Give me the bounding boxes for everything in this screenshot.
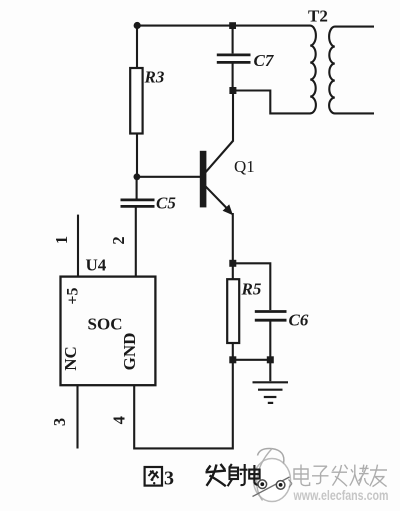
node C6 bottom junction	[267, 356, 274, 363]
label C5 value	[156, 194, 176, 213]
ic U4 SOC box	[61, 277, 156, 386]
wire collector to primary bottom	[233, 91, 311, 114]
svg-text:3: 3	[50, 418, 69, 426]
svg-text:C5: C5	[156, 194, 176, 213]
label pin 4	[110, 416, 129, 424]
svg-text:U4: U4	[86, 256, 107, 275]
node collector junction	[229, 87, 236, 94]
svg-text:www.elecfans.com: www.elecfans.com	[293, 488, 389, 503]
svg-text:1: 1	[52, 236, 71, 244]
label GND	[120, 333, 139, 371]
caption character fa	[206, 464, 227, 486]
label C7 value	[254, 51, 275, 70]
transistor Q1	[200, 141, 234, 216]
label +5	[65, 287, 82, 304]
svg-text:C6: C6	[289, 311, 309, 330]
svg-text:Q1: Q1	[234, 157, 255, 176]
transformer T2 secondary winding	[329, 27, 374, 114]
label pin 2	[109, 236, 128, 244]
svg-text:4: 4	[110, 416, 129, 424]
wire emitter junction to C6 branch	[233, 263, 270, 310]
label Q1 designator	[234, 157, 255, 176]
svg-text:GND: GND	[120, 333, 139, 371]
svg-text:2: 2	[109, 236, 128, 244]
watermark url text	[293, 488, 389, 503]
label U4 designator	[86, 256, 107, 275]
wire C6 bottom lead	[269, 321, 271, 360]
svg-text:3: 3	[164, 468, 174, 490]
svg-text:R3: R3	[144, 68, 165, 87]
resistor R5	[227, 279, 239, 343]
watermark text dianzi fashaoyou	[294, 465, 387, 487]
label pin 3	[50, 418, 69, 426]
wire top supply rail	[137, 25, 311, 27]
wire pin 1	[77, 215, 79, 277]
wire pin 3	[76, 385, 78, 448]
label C6 value	[289, 311, 309, 330]
ground	[253, 382, 289, 403]
svg-text:SOC: SOC	[88, 315, 123, 334]
wire R5 bottom lead	[232, 343, 234, 360]
node R5 bottom junction	[229, 356, 236, 363]
svg-text:NC: NC	[61, 346, 80, 371]
transformer T2 primary winding	[310, 26, 316, 114]
label T2 designator	[308, 7, 328, 26]
wire R3 bottom lead	[136, 134, 138, 178]
capacitor C5	[121, 200, 155, 207]
svg-text:C7: C7	[254, 51, 275, 70]
wire pin 4	[134, 361, 233, 449]
label SOC	[88, 315, 123, 334]
label pin 1	[52, 236, 71, 244]
wire C5 top lead	[136, 177, 138, 199]
wire R5 top lead	[232, 263, 234, 279]
wire pin 2	[135, 207, 137, 276]
label R3 value	[144, 68, 165, 87]
capacitor C7	[217, 55, 251, 63]
capacitor C6	[255, 312, 287, 321]
node C7 top junction	[229, 22, 236, 29]
watermark logo circle	[254, 448, 291, 501]
caption figure 3	[145, 467, 174, 490]
wire bottom junction link	[233, 359, 270, 361]
svg-text:+5: +5	[65, 287, 82, 304]
wire R3 top lead	[136, 26, 138, 69]
svg-text:T2: T2	[308, 7, 328, 26]
wire C7 bottom lead	[232, 63, 234, 91]
label R5 value	[241, 280, 262, 299]
caption character dian	[249, 465, 261, 485]
label NC	[61, 346, 80, 371]
wire C7 top lead	[232, 26, 234, 54]
node emitter junction	[229, 260, 236, 267]
wire collector lead	[232, 91, 234, 142]
node base junction	[134, 173, 141, 180]
node supply left dot	[134, 22, 141, 29]
caption character she	[228, 464, 248, 486]
svg-text:R5: R5	[241, 280, 262, 299]
resistor R3	[130, 68, 142, 134]
wire base wire	[137, 176, 200, 178]
watermark logo percent mark	[253, 477, 293, 497]
wire emitter lead	[232, 213, 234, 263]
wire ground lead	[269, 360, 271, 381]
